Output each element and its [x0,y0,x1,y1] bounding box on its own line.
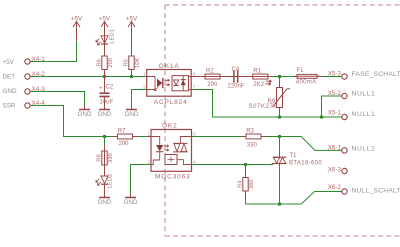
svg-text:GND: GND [124,199,138,206]
svg-text:ACPL824: ACPL824 [154,99,188,106]
svg-text:X6-3: X6-3 [328,167,342,174]
svg-text:X4-1: X4-1 [32,56,46,63]
svg-text:+5V: +5V [3,59,15,66]
svg-text:X4-3: X4-3 [32,86,46,93]
svg-text:2K2: 2K2 [253,82,264,88]
svg-text:400mA: 400mA [296,79,317,85]
svg-text:R1: R1 [253,68,261,74]
svg-text:330: 330 [247,142,258,148]
svg-text:R5: R5 [123,59,129,66]
svg-text:R6: R6 [96,59,102,66]
svg-text:X4-4: X4-4 [32,100,46,107]
svg-text:NULL2: NULL2 [352,146,376,153]
svg-text:LED2: LED2 [107,174,113,189]
svg-text:X5-2: X5-2 [328,90,342,97]
svg-text:360: 360 [249,179,255,189]
svg-text:GND: GND [98,111,112,118]
svg-text:+5V: +5V [99,15,111,22]
svg-text:200: 200 [207,82,218,88]
svg-text:X5-1: X5-1 [328,110,342,117]
svg-text:R8: R8 [96,154,102,161]
svg-text:FASE_SCHALT: FASE_SCHALT [352,71,400,78]
svg-text:F1: F1 [297,68,305,74]
svg-text:X6-1: X6-1 [328,145,342,152]
svg-text:R7: R7 [118,128,126,134]
svg-text:10K: 10K [135,58,141,68]
svg-text:GND: GND [3,88,17,95]
svg-text:+5V: +5V [126,15,138,22]
svg-text:+5V: +5V [71,15,83,22]
svg-text:200: 200 [119,141,130,147]
svg-text:SSR: SSR [3,103,16,110]
svg-text:R2: R2 [206,68,214,74]
svg-text:GND: GND [78,111,92,118]
svg-text:X4-2: X4-2 [32,71,46,78]
svg-text:DET: DET [3,74,16,81]
svg-text:X6-2: X6-2 [328,184,342,191]
svg-text:NULL1: NULL1 [352,111,376,118]
svg-text:C2: C2 [106,85,114,91]
svg-text:X5-3: X5-3 [328,71,342,78]
svg-text:200: 200 [108,58,114,68]
svg-text:GND: GND [125,111,139,118]
svg-text:10uF: 10uF [100,100,114,106]
svg-text:R3: R3 [246,128,254,134]
svg-text:OK1A: OK1A [159,63,180,70]
svg-text:OK2: OK2 [162,123,178,130]
svg-text:+: + [99,86,103,92]
svg-text:R4: R4 [237,180,243,188]
svg-text:NULL1: NULL1 [352,91,376,98]
svg-text:BTA16-600: BTA16-600 [289,160,322,166]
svg-text:GND: GND [98,199,112,206]
svg-text:T1: T1 [290,153,298,159]
svg-text:220nF: 220nF [228,83,245,89]
svg-text:390: 390 [108,153,114,163]
svg-text:MOC3063: MOC3063 [155,173,191,180]
svg-text:C4: C4 [232,67,240,73]
svg-text:NULL_SCHALT: NULL_SCHALT [352,188,400,195]
svg-text:LED1: LED1 [110,29,116,44]
svg-text:S07K275: S07K275 [249,104,278,110]
